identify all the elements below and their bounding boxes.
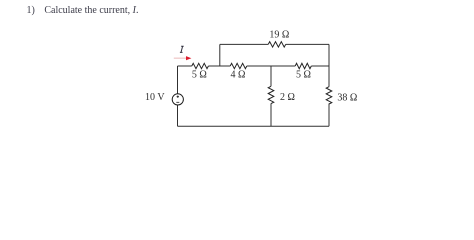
svg-text:2 Ω: 2 Ω — [280, 92, 295, 103]
current arrow shaft — [174, 57, 187, 59]
wire: bottom return — [178, 125, 330, 127]
wire: middle vertical below 2ohm — [270, 104, 272, 127]
wire: right of 5ohm2 to right vertical — [311, 65, 329, 67]
resistor R5 2ohm zigzag (vertical) — [268, 86, 274, 103]
voltage source plus sign — [177, 96, 179, 98]
svg-text:5 Ω: 5 Ω — [296, 70, 311, 81]
wire: right vertical upper (19ohm branch down to 38ohm) — [328, 44, 330, 86]
wire: middle vertical above 2ohm — [270, 66, 272, 86]
resistor R6 38ohm zigzag (vertical) — [326, 87, 332, 104]
wire: 19ohm branch left horizontal — [220, 43, 268, 45]
wire: right vertical below 38ohm — [328, 104, 330, 127]
resistor R4 5ohm zigzag — [295, 63, 311, 68]
wire: main top row left segment — [178, 65, 192, 67]
wire: 19ohm branch right horizontal — [286, 43, 329, 45]
wire: left vertical below source — [177, 105, 179, 126]
svg-text:4 Ω: 4 Ω — [231, 70, 246, 81]
wire: between 5ohm and 4ohm (junction at node A) — [208, 65, 230, 67]
svg-text:5 Ω: 5 Ω — [192, 70, 207, 81]
title text — [27, 5, 139, 16]
resistor R2 4ohm zigzag — [230, 63, 247, 68]
svg-text:38 Ω: 38 Ω — [337, 93, 357, 104]
wire: vertical from node A up to 19ohm branch — [219, 44, 221, 66]
voltage source minus sign — [176, 101, 179, 103]
resistor R3 19ohm zigzag — [268, 42, 285, 47]
current arrow head — [186, 56, 191, 60]
wire: between 4ohm and 5ohm2 — [247, 65, 295, 67]
svg-text:10 V: 10 V — [145, 92, 165, 103]
wire: left vertical above source — [177, 66, 179, 94]
label I (current) — [180, 46, 184, 52]
voltage source V1 circle — [172, 94, 183, 105]
resistor R1 5ohm zigzag — [192, 63, 209, 68]
svg-text:19 Ω: 19 Ω — [269, 30, 289, 41]
